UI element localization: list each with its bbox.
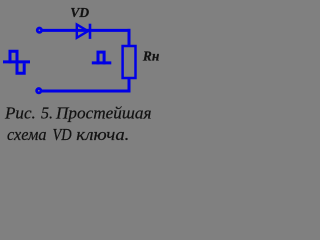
input terminal bottom	[37, 89, 41, 93]
svg-text:VD: VD	[70, 6, 89, 21]
wire right vertical (bottom)	[128, 78, 131, 93]
resistor Rn body	[123, 46, 136, 78]
diode VD triangle	[77, 25, 88, 38]
input bipolar square-wave symbol: pulse trace	[10, 51, 24, 73]
svg-text:Rн: Rн	[142, 49, 160, 64]
svg-text:схема: схема	[7, 125, 47, 144]
output single pulse symbol: pulse trace	[98, 52, 104, 64]
svg-text:ключа.: ключа.	[76, 125, 129, 144]
diode VD cathode bar	[89, 24, 92, 39]
svg-text:Простейшая: Простейшая	[55, 104, 152, 123]
wire top horizontal	[42, 29, 130, 32]
input terminal top (node A)	[37, 28, 41, 32]
wire bottom horizontal	[42, 90, 131, 93]
svg-text:VD: VD	[53, 125, 73, 144]
svg-text:Рис.: Рис.	[4, 104, 36, 123]
input bipolar square-wave symbol: axis	[3, 60, 30, 63]
wire right vertical (top)	[128, 29, 131, 47]
svg-text:5.: 5.	[41, 104, 53, 123]
output single pulse symbol: baseline	[92, 61, 112, 64]
